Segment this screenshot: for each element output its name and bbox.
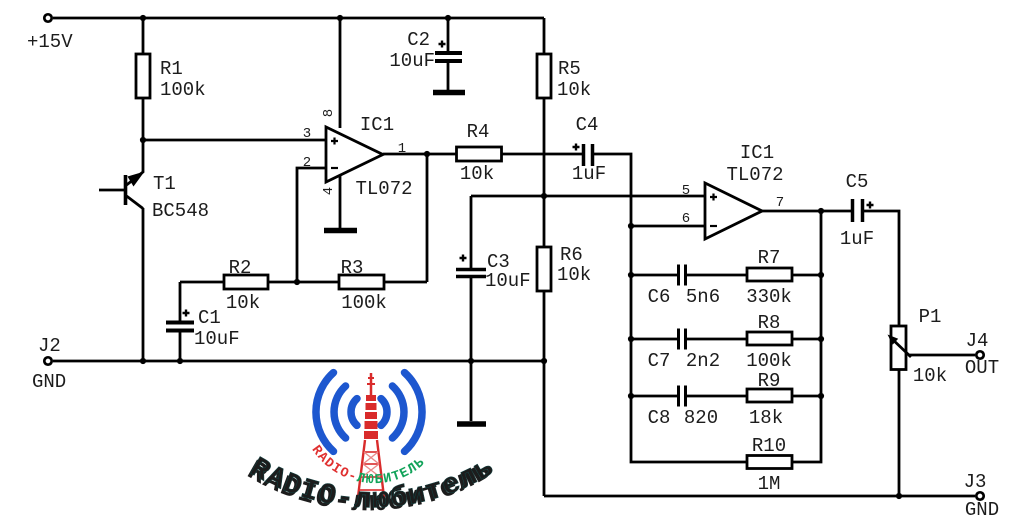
wire feedback down <box>426 154 429 282</box>
polarity C2 <box>439 41 446 48</box>
svg-text:J3: J3 <box>964 471 987 493</box>
node junction row3 right <box>818 393 824 399</box>
svg-text:T1: T1 <box>153 173 176 195</box>
polarity C3 <box>460 255 467 262</box>
node junction P1 gnd <box>896 493 902 499</box>
svg-text:7: 7 <box>776 195 784 211</box>
wire pin6 <box>631 225 705 228</box>
svg-text:C5: C5 <box>846 171 869 193</box>
wire R1 bottom <box>142 98 145 140</box>
svg-text:C4: C4 <box>576 114 599 136</box>
svg-text:100k: 100k <box>160 79 206 101</box>
svg-text:820: 820 <box>684 407 718 429</box>
wire R1 top <box>142 18 145 54</box>
wire GND rail J3 <box>544 495 975 498</box>
logo tower <box>357 373 385 505</box>
terminal J4 <box>976 351 983 358</box>
logo radio waves right <box>381 373 422 452</box>
wire pin3 <box>143 139 326 142</box>
svg-text:R8: R8 <box>758 312 781 334</box>
svg-text:1uF: 1uF <box>572 163 606 185</box>
node junction row3 left <box>628 393 634 399</box>
node junction pin6 <box>628 223 634 229</box>
node junction row1 left <box>628 272 634 278</box>
svg-text:P1: P1 <box>919 306 942 328</box>
node junction R1 top <box>140 15 146 21</box>
terminal +15V <box>44 14 51 21</box>
node junction row1 right <box>818 272 824 278</box>
node junction C2 rail <box>445 15 451 21</box>
svg-text:100k: 100k <box>746 350 792 372</box>
feedback right rail <box>792 211 821 462</box>
ground C3 <box>457 421 486 427</box>
ground C2 <box>433 90 465 96</box>
svg-text:10k: 10k <box>226 292 260 314</box>
resistor R1 <box>136 54 150 98</box>
svg-text:R2: R2 <box>229 257 252 279</box>
svg-text:OUT: OUT <box>965 357 999 379</box>
potentiometer P1 <box>888 326 976 370</box>
capacitor C4 <box>584 144 593 166</box>
svg-text:+15V: +15V <box>27 31 73 53</box>
op-amp IC1 second half <box>705 183 762 239</box>
resistor R5 <box>537 54 551 98</box>
svg-text:4: 4 <box>321 187 337 195</box>
wire GND rail J2 <box>53 360 544 363</box>
node junction out2 <box>818 208 824 214</box>
svg-text:330k: 330k <box>746 286 792 308</box>
wire +15V rail <box>53 17 544 20</box>
wire C4 to corner <box>594 154 631 226</box>
wire pin4 <box>339 176 342 229</box>
logo big arc text <box>241 450 500 519</box>
resistor R8 <box>747 332 821 345</box>
capacitor C7 <box>679 329 686 350</box>
svg-text:C1: C1 <box>198 307 221 329</box>
wire R5 to R6 <box>543 98 546 247</box>
svg-text:C7: C7 <box>648 350 671 372</box>
svg-text:8: 8 <box>321 109 337 117</box>
svg-text:R1: R1 <box>160 58 183 80</box>
svg-text:C2: C2 <box>407 29 430 51</box>
svg-text:2n2: 2n2 <box>686 350 720 372</box>
resistor R7 <box>747 268 821 281</box>
resistor R9 <box>747 389 821 402</box>
capacitor C6 <box>679 265 686 286</box>
node junction C3 gnd <box>468 358 474 364</box>
svg-text:J4: J4 <box>966 330 989 352</box>
svg-text:10k: 10k <box>460 163 494 185</box>
svg-text:IC1: IC1 <box>740 142 774 164</box>
node junction pin2 R2R3 <box>294 279 300 285</box>
svg-text:R4: R4 <box>467 121 490 143</box>
wire P1 bottom <box>898 370 901 497</box>
node junction base node <box>140 137 146 143</box>
svg-text:1M: 1M <box>758 473 781 495</box>
svg-text:10k: 10k <box>557 264 591 286</box>
wire row1 <box>631 274 747 277</box>
svg-text:100k: 100k <box>341 292 387 314</box>
capacitor C3 <box>456 196 486 421</box>
ground IC1a <box>324 228 357 234</box>
polarity C4 <box>573 144 580 151</box>
svg-text:BC548: BC548 <box>152 200 209 222</box>
svg-text:C6: C6 <box>648 286 671 308</box>
wire pin2 <box>297 168 326 282</box>
node junction out1 <box>424 151 430 157</box>
resistor R3 <box>339 275 384 289</box>
svg-text:5: 5 <box>682 183 690 199</box>
pin numbers <box>303 109 784 227</box>
svg-text:R6: R6 <box>560 244 583 266</box>
svg-text:R10: R10 <box>752 435 786 457</box>
capacitor C1 <box>166 282 194 361</box>
node junction C1 gnd <box>177 358 183 364</box>
resistor R4 <box>457 147 502 161</box>
wire R2 R3 net <box>180 281 427 284</box>
svg-text:10k: 10k <box>557 79 591 101</box>
capacitor C5 <box>853 199 863 222</box>
wire pin5 line <box>471 195 705 198</box>
wire C5 to P1 <box>864 211 899 326</box>
svg-text:TL072: TL072 <box>355 178 412 200</box>
svg-text:R5: R5 <box>558 58 581 80</box>
wire output IC1a <box>383 153 456 156</box>
svg-text:J2: J2 <box>38 335 61 357</box>
wire output IC1b <box>762 210 851 213</box>
wire T1 emitter up <box>127 140 144 185</box>
svg-text:R3: R3 <box>341 257 364 279</box>
op-amp IC1 first half <box>326 127 383 182</box>
capacitor C2 <box>435 18 462 90</box>
transistor T1 <box>99 172 145 209</box>
polarity C1 <box>183 310 190 317</box>
resistor R10 <box>747 456 792 469</box>
terminal J3 <box>976 492 983 499</box>
node junction R6 gnd <box>541 358 547 364</box>
svg-text:TL072: TL072 <box>726 164 783 186</box>
svg-text:R7: R7 <box>758 247 781 269</box>
resistor R2 <box>224 275 268 289</box>
wire R4 to C4 <box>502 153 583 156</box>
svg-text:10uF: 10uF <box>389 50 435 72</box>
svg-text:10uF: 10uF <box>194 328 240 350</box>
logo radio waves left <box>316 373 357 452</box>
svg-text:18k: 18k <box>749 407 783 429</box>
svg-text:R9: R9 <box>758 370 781 392</box>
polarity C5 <box>867 202 874 209</box>
resistor R6 <box>537 247 551 291</box>
svg-text:5n6: 5n6 <box>686 286 720 308</box>
wire R6 bottom to GND rail <box>543 291 546 496</box>
wire pin8 <box>339 18 342 128</box>
svg-text:6: 6 <box>682 211 690 227</box>
svg-text:1uF: 1uF <box>840 228 874 250</box>
terminal J2 <box>44 357 51 364</box>
feedback left rail <box>631 226 747 462</box>
node junction bias <box>541 193 547 199</box>
svg-text:GND: GND <box>32 371 66 393</box>
capacitor C8 <box>679 386 686 407</box>
node junction row2 left <box>628 336 634 342</box>
svg-text:3: 3 <box>303 126 311 142</box>
svg-text:C8: C8 <box>648 407 671 429</box>
svg-text:10uF: 10uF <box>485 270 531 292</box>
node junction pin8 rail <box>337 15 343 21</box>
wire row3 <box>631 395 747 398</box>
svg-text:2: 2 <box>303 155 311 171</box>
op-amp IC1a input polarity marks <box>331 138 717 227</box>
wire T1 collector down <box>142 208 145 361</box>
svg-text:IC1: IC1 <box>360 114 394 136</box>
wire R5 column top <box>543 18 546 54</box>
svg-text:10k: 10k <box>913 365 947 387</box>
svg-text:1: 1 <box>398 141 406 157</box>
node junction row2 right <box>818 336 824 342</box>
wire row2 <box>631 338 747 341</box>
node junction T1 gnd <box>140 358 146 364</box>
svg-text:GND: GND <box>965 499 999 521</box>
